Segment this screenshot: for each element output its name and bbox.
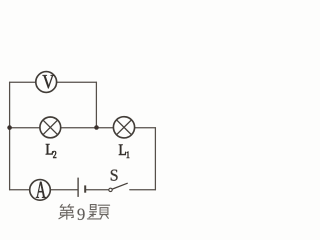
ammeter A — [30, 180, 51, 201]
caption: 题 glyph — [87, 205, 109, 219]
wire middle center segment — [61, 127, 114, 129]
label S — [111, 170, 118, 181]
wire middle right segment — [135, 127, 156, 129]
wire battery to switch — [86, 189, 109, 191]
caption: 第 glyph — [59, 204, 74, 219]
voltmeter V — [36, 72, 57, 93]
switch S blade — [112, 183, 127, 189]
wire right vertical — [154, 128, 156, 190]
wire bottom left segment — [10, 189, 30, 191]
wire ammeter to battery — [50, 189, 77, 191]
wire top branch left segment — [10, 81, 36, 83]
wire middle left segment — [10, 127, 40, 129]
label L2 — [46, 144, 56, 158]
lamp L2 — [40, 117, 61, 138]
battery B1 short plate — [84, 185, 86, 192]
wire top branch right segment — [57, 81, 97, 83]
node junction left — [7, 125, 12, 130]
caption: digit 9 — [77, 209, 84, 220]
lamp L1 — [113, 117, 134, 138]
label L1 — [119, 144, 129, 157]
node junction middle — [94, 125, 99, 130]
wire left vertical — [9, 82, 11, 190]
switch S pivot — [109, 188, 112, 191]
wire switch to right corner — [130, 189, 156, 191]
battery B1 long plate — [77, 178, 79, 197]
wire voltmeter branch right drop — [95, 82, 97, 127]
